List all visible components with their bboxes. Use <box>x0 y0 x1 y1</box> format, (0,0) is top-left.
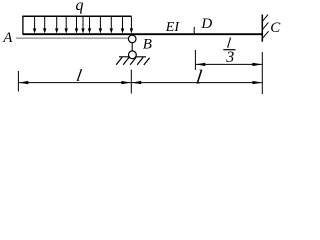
dimension line D-C <box>196 63 262 65</box>
dimension line B-C <box>132 82 262 84</box>
extension tick at B for bottom dim <box>130 70 132 94</box>
svg-text:A: A <box>2 30 13 46</box>
arrowhead left of D-C dim <box>196 63 206 66</box>
label l of span A-B <box>75 66 83 85</box>
lower circle of link support at B <box>129 51 137 59</box>
arrowhead left of B-C dim <box>132 81 142 84</box>
ground hatching at B <box>116 57 149 65</box>
beam line A-C <box>23 33 263 35</box>
arrowhead left of A-B dim <box>19 81 29 84</box>
fixed support wall line at C <box>261 15 263 42</box>
svg-text:3: 3 <box>225 49 234 66</box>
load arrow heads <box>33 28 133 33</box>
arrowhead right of B-C dim <box>252 81 262 84</box>
extension line at C (wall to bottom dim) <box>261 52 263 94</box>
extension tick at A for bottom dim <box>17 71 19 92</box>
wall hatching at C <box>262 15 268 39</box>
beam bar bottom shadow line under A-B <box>16 37 129 39</box>
node D tick <box>193 27 195 35</box>
distributed load top line <box>23 15 132 17</box>
arrowhead right of A-B dim <box>121 81 130 84</box>
fraction bar <box>223 49 235 51</box>
load arrow shafts <box>35 16 132 29</box>
link line at B <box>131 42 133 51</box>
label l of span B-C <box>195 66 204 88</box>
dimension line A-B <box>19 82 131 84</box>
distributed load left edge <box>22 16 24 34</box>
svg-text:q: q <box>76 0 84 14</box>
arrowhead right of D-C dim <box>252 63 262 66</box>
svg-text:D: D <box>200 16 212 32</box>
hinge circle at B <box>128 35 136 43</box>
svg-text:C: C <box>270 20 281 36</box>
extension tick at D for l/3 dim <box>194 50 196 70</box>
fraction numerator l <box>226 36 232 52</box>
ground line at B <box>119 56 146 58</box>
svg-text:EI: EI <box>165 20 181 35</box>
svg-text:B: B <box>143 37 152 53</box>
